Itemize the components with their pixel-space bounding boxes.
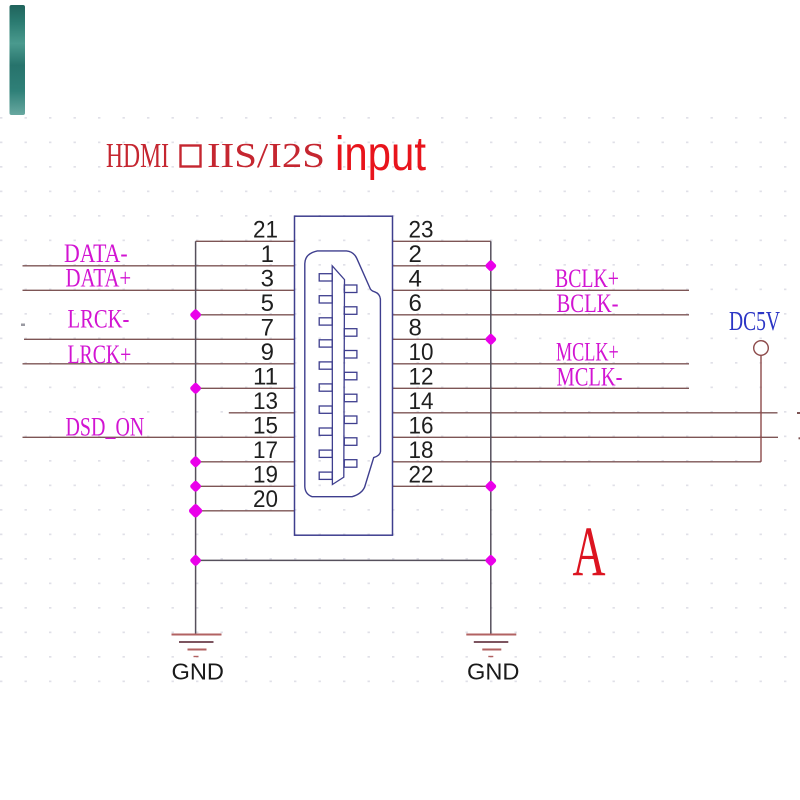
svg-text:GND: GND bbox=[172, 659, 225, 685]
svg-text:IIS/I2S: IIS/I2S bbox=[207, 136, 325, 175]
svg-text:15: 15 bbox=[253, 413, 278, 440]
svg-text:14: 14 bbox=[409, 388, 434, 415]
svg-text:8: 8 bbox=[409, 315, 422, 342]
svg-text:LRCK-: LRCK- bbox=[68, 305, 130, 334]
svg-text:11: 11 bbox=[253, 364, 278, 391]
svg-text:21: 21 bbox=[253, 217, 278, 244]
svg-text:DC5V: DC5V bbox=[729, 306, 780, 336]
svg-text:16: 16 bbox=[409, 413, 434, 440]
svg-text:LRCK+: LRCK+ bbox=[68, 340, 132, 369]
svg-text:7: 7 bbox=[261, 315, 274, 342]
svg-text:9: 9 bbox=[261, 339, 274, 366]
svg-text:19: 19 bbox=[253, 462, 278, 489]
svg-text:22: 22 bbox=[409, 462, 434, 489]
svg-text:20: 20 bbox=[253, 486, 278, 513]
svg-text:12: 12 bbox=[409, 364, 434, 391]
svg-text:DSD_ON: DSD_ON bbox=[66, 413, 145, 442]
svg-text:3: 3 bbox=[261, 266, 274, 293]
svg-text:GND: GND bbox=[467, 659, 520, 685]
svg-text:DATA+: DATA+ bbox=[66, 264, 132, 293]
svg-text:23: 23 bbox=[409, 217, 434, 244]
svg-text:5: 5 bbox=[261, 290, 274, 317]
svg-text:A: A bbox=[573, 513, 606, 591]
svg-text:13: 13 bbox=[253, 388, 278, 415]
svg-text:BCLK-: BCLK- bbox=[557, 289, 619, 318]
svg-text:input: input bbox=[335, 128, 426, 181]
svg-text:MCLK-: MCLK- bbox=[557, 363, 623, 392]
svg-text:4: 4 bbox=[409, 266, 422, 293]
svg-text:2: 2 bbox=[409, 241, 422, 268]
svg-text:6: 6 bbox=[409, 290, 422, 317]
svg-text:HDMI: HDMI bbox=[106, 136, 169, 175]
svg-text:17: 17 bbox=[253, 437, 278, 464]
svg-text:10: 10 bbox=[409, 339, 434, 366]
svg-text:18: 18 bbox=[409, 437, 434, 464]
svg-text:1: 1 bbox=[261, 241, 274, 268]
